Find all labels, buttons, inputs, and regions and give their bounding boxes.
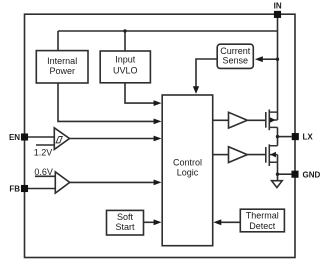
- wire 1.2V reference stub: [36, 144, 54, 146]
- pin GND: [291, 171, 320, 180]
- wire Control Logic to lower driver: [213, 154, 229, 156]
- wire IN column: [277, 14, 279, 120]
- svg-text:GND: GND: [303, 171, 321, 180]
- arrowhead into Control Logic (from Soft Start): [154, 219, 162, 225]
- transistor lower FET (NMOS low side): [266, 144, 278, 166]
- wire FB comparator output to Control Logic: [70, 181, 155, 183]
- svg-text:Control: Control: [173, 158, 202, 168]
- svg-text:Sense: Sense: [223, 55, 249, 65]
- arrowhead into Control Logic (from Input UVLO): [154, 100, 162, 106]
- arrowhead into Current Sense (from IN column): [255, 56, 263, 62]
- svg-text:EN: EN: [9, 133, 20, 142]
- svg-text:Soft: Soft: [117, 212, 134, 222]
- pin IN: [274, 2, 282, 18]
- svg-text:Thermal: Thermal: [246, 211, 279, 221]
- wire Internal Power bottom to Control Logic: [58, 83, 155, 121]
- svg-text:Start: Start: [115, 222, 135, 232]
- IC boundary box: [25, 14, 296, 257]
- wire upper driver to upper gate: [247, 119, 265, 121]
- block Thermal Detect: [240, 209, 284, 232]
- node LX junction: [276, 135, 279, 138]
- pin LX: [292, 132, 314, 141]
- wire Input UVLO bottom to Control Logic: [125, 83, 155, 103]
- svg-text:1.2V: 1.2V: [34, 147, 53, 157]
- wire Control Logic to upper driver: [213, 119, 229, 121]
- wire Thermal Detect to Control Logic: [220, 221, 240, 223]
- wire IN rail y=31: [58, 30, 278, 32]
- svg-text:Internal: Internal: [47, 56, 77, 66]
- wire lower FET source to ground: [277, 162, 279, 180]
- wire lower FET body to source: [277, 155, 279, 163]
- block Input UVLO: [100, 51, 150, 83]
- wire lower driver to lower gate: [247, 154, 265, 156]
- node rail/UVLO junction: [123, 29, 126, 32]
- svg-text:UVLO: UVLO: [113, 65, 138, 75]
- svg-text:Power: Power: [49, 66, 75, 76]
- wire GND branch: [278, 173, 292, 175]
- arrowhead into Control Logic (from FB comparator): [154, 180, 162, 186]
- svg-text:LX: LX: [303, 132, 314, 141]
- svg-text:Input: Input: [115, 54, 136, 64]
- pin FB: [9, 185, 28, 194]
- block Internal Power: [36, 51, 88, 83]
- svg-text:FB: FB: [9, 185, 20, 194]
- comparator EN (1.2V hysteresis): [54, 128, 69, 150]
- ground: [272, 181, 283, 188]
- node GND junction: [276, 173, 279, 176]
- node IN/Current Sense junction: [276, 58, 279, 61]
- wire LX branch: [278, 136, 292, 138]
- wire IN column to Current Sense: [262, 58, 278, 60]
- block Soft Start: [107, 210, 144, 235]
- driver upper buffer: [229, 112, 248, 128]
- block Control Logic: [162, 95, 213, 246]
- wire FB pin to comparator: [28, 188, 55, 190]
- arrowhead into Control Logic right (from Thermal Detect): [213, 219, 221, 225]
- wire EN pin to comparator: [28, 136, 54, 138]
- wire rail to Input UVLO top: [124, 31, 126, 51]
- wire Current Sense left to Control Logic top: [196, 59, 217, 88]
- wire upper FET source to lower FET drain: [277, 127, 279, 145]
- driver lower buffer: [229, 147, 248, 163]
- wire 0.6V reference stub: [35, 175, 55, 177]
- wire EN comparator output to Control Logic: [70, 138, 155, 140]
- svg-text:Detect: Detect: [249, 221, 276, 231]
- svg-text:IN: IN: [274, 2, 282, 11]
- svg-text:Logic: Logic: [177, 168, 199, 178]
- wire rail to Internal Power top: [57, 31, 59, 51]
- transistor upper FET (PMOS high side): [266, 110, 278, 131]
- arrowhead into Control Logic (from EN comparator): [154, 136, 162, 142]
- wire Soft Start to Control Logic: [144, 221, 156, 223]
- arrowhead into Control Logic top (from Current Sense): [193, 86, 199, 94]
- svg-text:0.6V: 0.6V: [34, 167, 53, 177]
- comparator FB (0.6V): [55, 172, 69, 193]
- block Current Sense: [217, 44, 253, 68]
- pin EN: [9, 133, 28, 142]
- arrowhead into Control Logic (from Internal Power): [154, 119, 162, 125]
